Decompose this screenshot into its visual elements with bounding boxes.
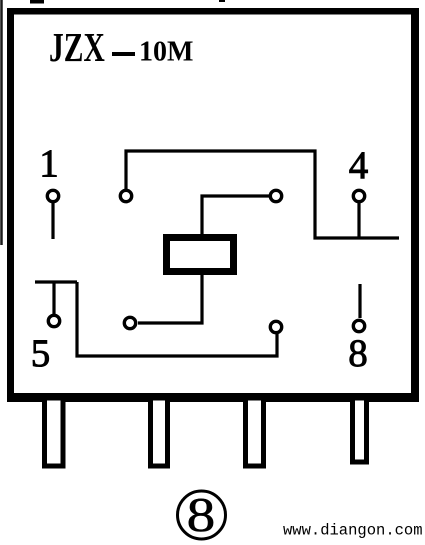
svg-text:www.diangon.com: www.diangon.com [283,522,423,540]
svg-text:5: 5 [31,332,51,375]
svg-text:4: 4 [349,144,369,187]
svg-text:8: 8 [187,487,216,542]
svg-text:10M: 10M [139,37,193,68]
svg-text:8: 8 [348,332,368,375]
svg-text:1: 1 [39,142,59,185]
svg-text:JZX: JZX [49,24,105,70]
